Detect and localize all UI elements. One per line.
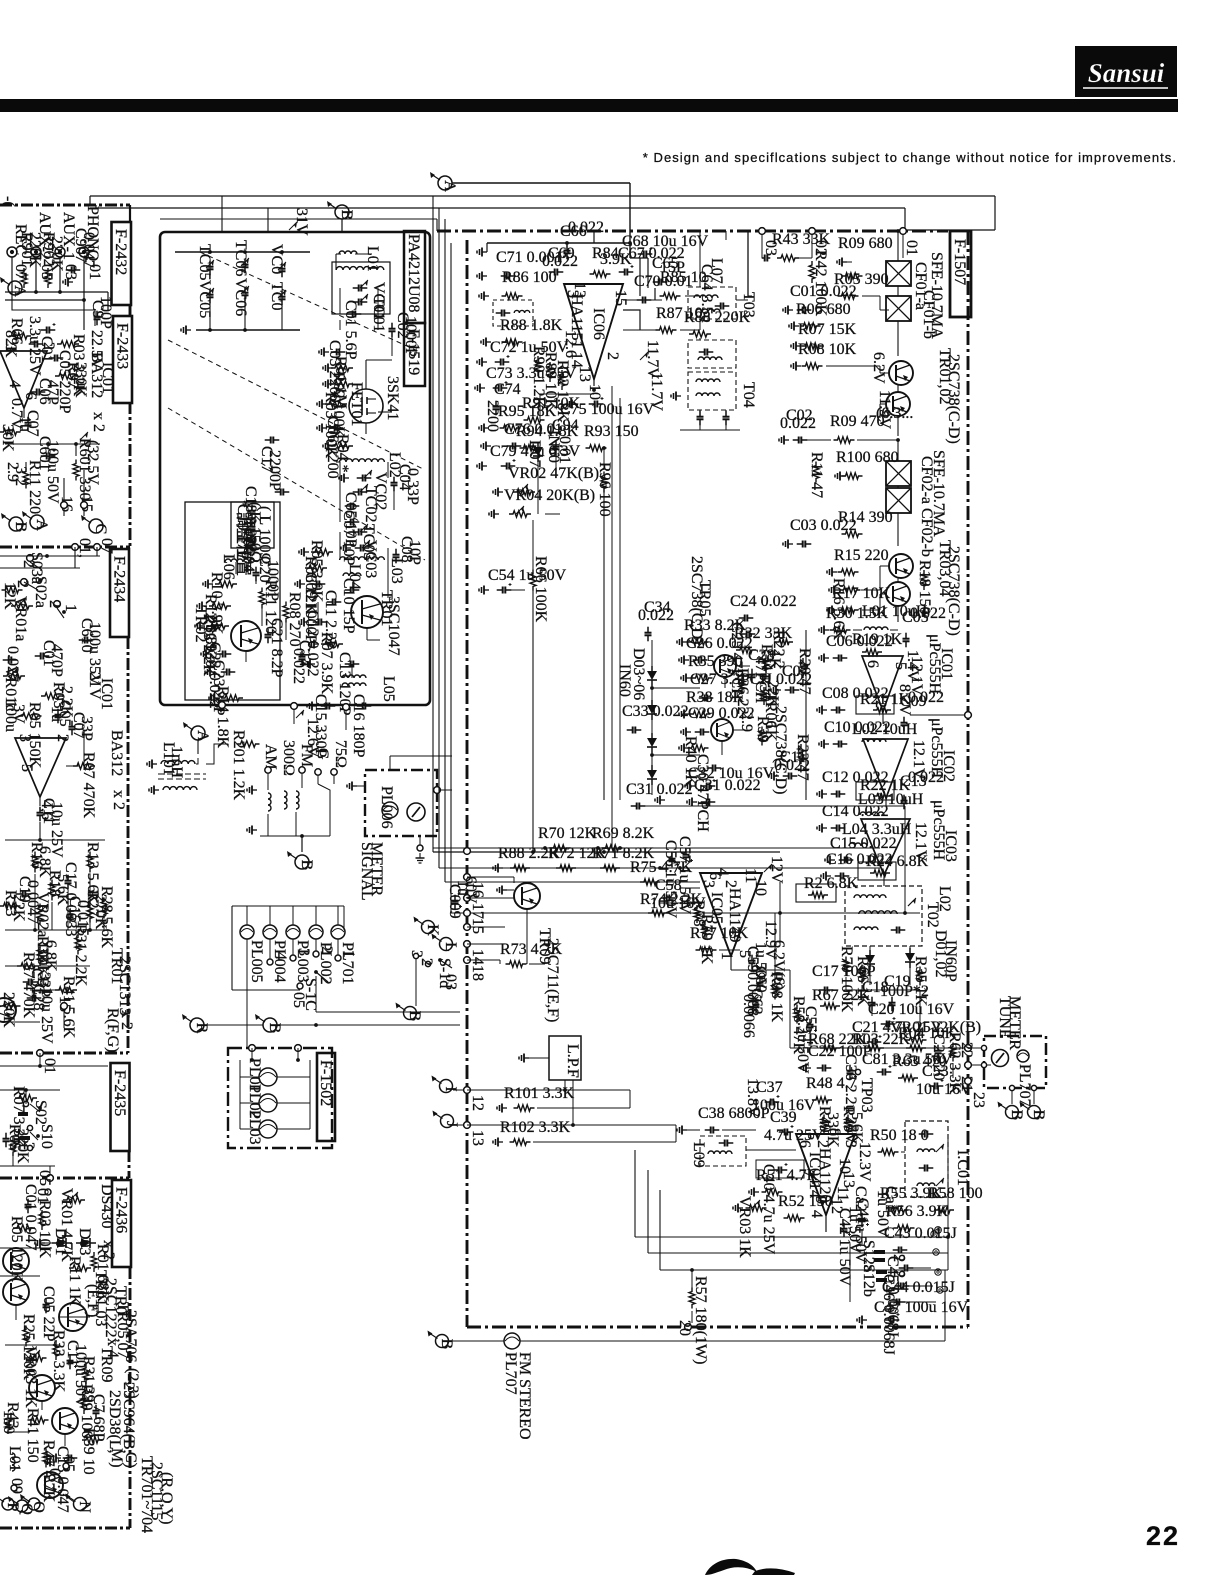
resistor R04m 10K (898, 1025, 957, 1051)
terminal 01 f2435 (37, 1050, 58, 1074)
wire nested loops top (594, 231, 655, 330)
resistor R06c 680 (789, 301, 851, 331)
inductor L101 1mH (160, 742, 197, 790)
resistor R70 12K (538, 825, 597, 851)
capacitor C22m 100P (801, 1043, 872, 1073)
svg-text:I.C01: I.C01 (954, 1150, 971, 1186)
ground bal1 (247, 786, 257, 795)
svg-text:10P: 10P (406, 540, 423, 565)
svg-text:R: R (193, 1023, 210, 1034)
svg-text:22: 22 (1146, 1521, 1180, 1551)
transformer T04a (688, 340, 736, 368)
svg-text:IN60: IN60 (616, 664, 633, 697)
op-amp IC01u uPC555H (862, 656, 903, 711)
svg-text:22K: 22K (10, 894, 27, 922)
resistor R08 270 (283, 592, 303, 647)
svg-text:14: 14 (469, 949, 486, 965)
capacitor C12u 0.022 (817, 769, 889, 799)
svg-text:A: A (33, 519, 50, 531)
ground vr1 (493, 488, 503, 497)
svg-text:1: 1 (340, 950, 357, 958)
wire r57 (690, 1268, 694, 1323)
wire bus y882 (445, 881, 700, 883)
svg-text:R43 33K: R43 33K (772, 231, 831, 248)
capacitor C31m 0.022 (626, 781, 693, 810)
capacitor C19m 100P (880, 973, 929, 1011)
svg-text:PL005: PL005 (248, 940, 265, 983)
capacitor C65 15P (652, 255, 685, 286)
svg-text:L: L (442, 942, 459, 952)
svg-text:17: 17 (469, 903, 486, 919)
wire fet (366, 360, 392, 434)
pin 16 (58, 496, 75, 512)
capacitor C32 10u16V (685, 765, 775, 791)
svg-text:R69 8.2K: R69 8.2K (592, 825, 655, 842)
antenna terminal AM (262, 744, 279, 773)
resistor R26 6.8K (796, 875, 859, 902)
svg-text:22: 22 (958, 1042, 975, 1058)
svg-text:15P: 15P (660, 259, 685, 276)
capacitor C13u (900, 769, 944, 809)
wire out12 (467, 1088, 630, 1108)
capacitor C62m (740, 988, 765, 1038)
resistor R88m 2.2K (493, 845, 561, 873)
ground g1 (319, 348, 329, 357)
capacitor Ca2 1u50V (852, 1186, 869, 1264)
board border left spine (128, 205, 130, 1528)
terminal border y1090 (464, 1087, 486, 1111)
svg-text:R09 470: R09 470 (830, 413, 885, 430)
label 32.5V (80, 432, 101, 485)
svg-text:FM STEREO: FM STEREO (516, 1352, 533, 1440)
svg-text:2: 2 (604, 352, 621, 360)
svg-text:C10 0.022: C10 0.022 (824, 719, 891, 736)
meter M1 (407, 803, 425, 821)
resistor R57 180 1W (689, 1276, 709, 1364)
inductor T02 p (854, 895, 886, 898)
label 300ohm (280, 740, 297, 776)
svg-text:2: 2 (318, 946, 335, 954)
svg-text:-(: -( (0, 196, 17, 207)
capacitor C68 10u16V (622, 233, 709, 258)
wire feed rail1 (90, 196, 995, 230)
balun coil 1 (284, 791, 299, 809)
screw terminal 2 (933, 1249, 939, 1255)
svg-text:07: 07 (98, 538, 115, 554)
capacitor C11f 100u50V (64, 1340, 89, 1408)
label box F-1507 (950, 231, 971, 317)
svg-text:2.9: 2.9 (738, 712, 755, 732)
capacitor C09u (900, 689, 944, 731)
resistor R62m 3.3K (946, 1032, 963, 1095)
wire tone net (5, 874, 108, 932)
svg-text:R2 6.8K: R2 6.8K (804, 875, 859, 892)
svg-text:N: N (76, 1501, 93, 1513)
page number 22 (1146, 1521, 1180, 1551)
capacitor C55 3.3u50V (794, 1006, 819, 1074)
pin label 01 (86, 264, 103, 280)
svg-text:R14 1.8K: R14 1.8K (214, 686, 231, 749)
capacitor C9 100P (89, 296, 114, 329)
svg-text:2: 2 (20, 560, 37, 568)
switch S0a mid (46, 600, 79, 618)
svg-text:2: 2 (46, 600, 63, 608)
svg-text:2: 2 (890, 1270, 907, 1278)
label box F-2434 (110, 549, 129, 637)
svg-text:C71 0.001: C71 0.001 (496, 249, 563, 266)
svg-text:R08 10K: R08 10K (798, 341, 857, 358)
capacitor C58m 10u16V (650, 877, 706, 912)
svg-text:J: J (443, 1121, 460, 1127)
capacitor C16u 0.022 (821, 851, 893, 881)
transistor TR02f (3, 1279, 29, 1305)
board box F-1502 (228, 1048, 332, 1148)
capacitor C06 47P (31, 378, 61, 405)
resistor R09c 470 (830, 413, 900, 443)
wire c31 link (644, 806, 907, 915)
resistor R39b 10 (80, 1428, 102, 1475)
svg-text:1: 1 (718, 952, 735, 960)
inductor L01b tank (336, 254, 384, 270)
transistor TR03c 2SC738 (889, 554, 913, 578)
terminal 03 top (759, 228, 779, 256)
Sansui logo (1075, 46, 1177, 97)
svg-text:12V: 12V (768, 856, 785, 884)
label SIGNAL METER (358, 842, 385, 901)
resistor R41f 150 (24, 1408, 49, 1463)
svg-text:R50 18 0: R50 18 0 (870, 1127, 929, 1144)
svg-text:100u 50V: 100u 50V (44, 440, 61, 504)
capacitor C19 17P (234, 504, 256, 560)
wire tc bottom (196, 300, 300, 332)
capacitor C53 10u16V (916, 1063, 972, 1098)
resistor R23u 47 (794, 734, 811, 781)
capacitor C05 10P (342, 492, 359, 548)
resistor R22m (770, 630, 793, 669)
svg-text:2: 2 (722, 880, 739, 888)
op-amp IC06 HA1151 (564, 284, 623, 379)
svg-text:R06 680: R06 680 (796, 301, 851, 318)
resistor R12 6.8K (202, 594, 231, 657)
wire v605 (605, 386, 612, 848)
capacitor C0.027 (3, 646, 21, 682)
svg-text:L07: L07 (708, 258, 725, 284)
svg-text:10u 25V: 10u 25V (38, 988, 55, 1044)
svg-text:C08 0.022: C08 0.022 (822, 685, 889, 702)
svg-text:3V: 3V (10, 704, 27, 724)
wire s1c out (232, 939, 316, 990)
svg-text:R88 1.8K: R88 1.8K (500, 317, 563, 334)
svg-text:PL03: PL03 (246, 1110, 263, 1145)
svg-text:S12b: S12b (860, 1264, 877, 1297)
resistor R33m 8.2K (677, 617, 747, 647)
wire out13 (467, 1123, 676, 1142)
resistor R63 470 (892, 1053, 947, 1081)
capacitor C19 0.0047 (16, 876, 41, 924)
resistor R08c 10K (791, 341, 857, 371)
svg-text:R66 100K: R66 100K (532, 556, 549, 623)
switch S-1d (418, 958, 459, 990)
svg-text:2: 2 (54, 734, 71, 742)
svg-text:2: 2 (40, 342, 57, 350)
resistor R03f 10K (36, 1200, 53, 1259)
resistor R33f 3.3K (50, 1330, 67, 1393)
ground f2436b (45, 1458, 55, 1467)
ground g5 (317, 424, 327, 433)
terminal 01p (72, 538, 115, 558)
svg-text:0.022: 0.022 (638, 607, 674, 624)
svg-text:B: B (298, 860, 315, 871)
svg-text:R100 680: R100 680 (836, 449, 899, 466)
terminal 2b (890, 1270, 907, 1278)
svg-text:HA1149: HA1149 (726, 888, 743, 943)
capacitor C81 3.3u50V (862, 1051, 953, 1076)
svg-text:B: B (1008, 1110, 1025, 1121)
capacitor C12 0.022 (304, 610, 327, 677)
wire top right loop (740, 231, 903, 258)
transistor FET01 3SK41 (348, 382, 383, 426)
capacitor C37 100u16V (752, 1079, 816, 1114)
svg-text:100P*2: 100P*2 (880, 983, 929, 1000)
wire harness v3 (444, 219, 446, 882)
signal meter box (365, 770, 437, 836)
terminal P (0, 1494, 21, 1512)
resistor R07b 3.9K (318, 632, 343, 695)
capacitor C27 3.3PCH (690, 671, 772, 702)
svg-text:R57 180(1W): R57 180(1W) (692, 1276, 709, 1364)
svg-text:2SA706: 2SA706 (122, 1310, 139, 1362)
resistor R03 2.2K (57, 334, 87, 397)
jack J3 AUX-2 (31, 247, 41, 257)
svg-text:0.047: 0.047 (80, 232, 97, 268)
variable resistor VR01a (11, 596, 33, 641)
capacitor C17 2200P (258, 437, 283, 492)
capacitor C01c 0.022 (783, 283, 857, 315)
resistor R90 1.2K (530, 346, 547, 409)
ground jack bus (63, 278, 73, 287)
svg-text:R58 100: R58 100 (928, 1185, 983, 1202)
svg-text:0.0066: 0.0066 (740, 994, 757, 1038)
terminal K (414, 917, 442, 937)
resistor R74 2.2K (640, 891, 703, 916)
resistor R16 5.6K (829, 578, 861, 641)
svg-text:330K: 330K (72, 362, 89, 398)
capacitor C08 10P (393, 536, 424, 565)
transistor TR01a (0, 998, 16, 1022)
terminal 05 f2436 (60, 1456, 77, 1472)
capacitor C08 0.022 (817, 685, 889, 715)
svg-text:R86 100: R86 100 (502, 269, 557, 286)
capacitor C01 470P (35, 640, 65, 677)
switch S10 (20, 1124, 55, 1151)
wire bus y1048 (790, 1045, 971, 1052)
inductor L04 (343, 564, 363, 590)
filter LPF box (549, 1036, 581, 1080)
label BA312 upper (88, 352, 116, 432)
svg-text:PA4212U08: PA4212U08 (405, 234, 422, 313)
resistor R71 8.2K (592, 845, 655, 871)
svg-text:CF02-a CF02-b: CF02-a CF02-b (918, 456, 935, 557)
resistor R86 100 (502, 269, 557, 299)
svg-text:C21 8.2P: C21 8.2P (268, 618, 285, 678)
wire upc rail (806, 630, 971, 886)
pin labels opamp2 (16, 734, 71, 820)
capacitor C28 10u25V (27, 984, 55, 1044)
resistor R28 5.6K (98, 886, 115, 949)
label SFE-10.7MA 1 (928, 252, 945, 339)
svg-text:31V: 31V (293, 208, 310, 236)
label 11.7V a (640, 340, 661, 379)
capacitor C06u 0.022 (819, 633, 893, 663)
pin label 07 (12, 264, 29, 280)
capacitor C07 1u (16, 410, 41, 437)
lamp PL01 (240, 1058, 310, 1093)
pin 15 f2434 (56, 996, 73, 1028)
ground g20 (209, 694, 219, 703)
svg-text:IC06: IC06 (590, 308, 607, 340)
resistor R68 22K (808, 1031, 867, 1051)
label 11.7V b (648, 372, 665, 411)
inductor T02 t (854, 927, 905, 934)
resistor R49b 5.6K (840, 1106, 865, 1144)
resistor R37 470K (17, 952, 39, 1019)
wire rail left hooks (90, 196, 96, 208)
inductor L03 (340, 557, 405, 584)
terminal Q (8, 1496, 35, 1515)
capacitor C15 0.015 (66, 896, 91, 936)
lamp PL004 (263, 906, 288, 983)
wire bottom taps (294, 710, 346, 730)
resistor R88b 220K (684, 309, 751, 337)
svg-text:B: B (406, 1011, 423, 1022)
resistor R05c 390 (834, 271, 889, 299)
wire tr09 net (527, 909, 545, 964)
diode D03b (647, 765, 657, 785)
svg-text:O: O (30, 1501, 47, 1513)
resistor R901 (18, 232, 43, 288)
ground f2436a (35, 1239, 52, 1248)
ground ha col3 (479, 292, 489, 301)
label EF (84, 1284, 101, 1317)
alignment dashed guide 1 (168, 340, 425, 470)
trimmer TC06 (240, 518, 257, 554)
resistor R35p 1K (912, 956, 929, 1007)
wire fb1 (635, 1150, 948, 1237)
svg-text:60V: 60V (462, 876, 479, 904)
capacitor C04 0.33P (391, 464, 422, 505)
wire pins down (64, 470, 84, 516)
ground sfe1 (837, 258, 852, 267)
screw terminal 1 (931, 1231, 937, 1237)
wire opamp2 net (5, 730, 105, 842)
resistor R95 18K (498, 403, 557, 431)
svg-text:3: 3 (295, 948, 312, 956)
wire pl707 (449, 1270, 945, 1341)
resistor R30 1.5K (819, 605, 889, 635)
wire ha1151 out (592, 296, 700, 392)
resistor R33 6.8K (34, 936, 59, 972)
svg-text:F-2432: F-2432 (112, 229, 129, 275)
screw terminal 3 (935, 1269, 941, 1275)
label D03-06 (630, 648, 647, 700)
label 3SC1047 (385, 596, 402, 656)
resistor R49 330K (816, 1106, 841, 1148)
label 13.8V (744, 1078, 761, 1118)
svg-text:BA312: BA312 (108, 730, 125, 776)
capacitor C76 0.01 (504, 421, 563, 450)
resistor R18 5.6K (46, 870, 71, 906)
svg-text:0.022: 0.022 (290, 648, 307, 684)
svg-text:R48 4.7: R48 4.7 (806, 1075, 857, 1092)
board divider F-2436 bottom (0, 1527, 130, 1530)
svg-text:2SC738(C-D): 2SC738(C-D) (945, 546, 962, 636)
inductor L02 (336, 452, 403, 478)
capacitor C69 0.022 (542, 245, 578, 276)
svg-text:C20 10u 16V: C20 10u 16V (868, 1001, 955, 1018)
capacitor C44 0.015J (882, 1279, 955, 1306)
svg-text:C31 0.022: C31 0.022 (694, 777, 761, 794)
terminal B4 (396, 1003, 424, 1022)
svg-text:03: 03 (62, 264, 79, 280)
capacitor C05 220P (49, 350, 73, 414)
resistor R05 150K (19, 702, 44, 769)
resistor R88 1.8K (500, 317, 563, 345)
capacitor C57 1u50V (676, 836, 693, 915)
ground g3 (323, 380, 333, 389)
svg-text:0.022: 0.022 (568, 219, 604, 236)
transistor TR01f (3, 1248, 29, 1274)
svg-text:2SC738(C-D): 2SC738(C-D) (945, 354, 962, 444)
board divider F-2432 top (0, 204, 130, 207)
trimmer TC03 (353, 524, 377, 560)
svg-text:C33 0.022: C33 0.022 (622, 703, 689, 720)
resistor R93 150 (584, 423, 639, 451)
resistor R11f 1K (66, 1256, 91, 1306)
svg-text:L.P.F: L.P.F (564, 1044, 581, 1078)
terminal 05 f2435 (36, 1170, 53, 1186)
label HA1151 (568, 294, 607, 349)
wire fb right (946, 1134, 950, 1270)
ground g11 (299, 618, 309, 627)
label HA1149 (708, 888, 743, 943)
svg-text:TC06: TC06 (232, 240, 249, 276)
resistor R94b 1.8K (516, 423, 579, 451)
svg-text:15: 15 (612, 290, 629, 306)
resistor R07 330K (55, 362, 89, 398)
svg-text:IC01: IC01 (98, 678, 115, 710)
resistor R07 470K (73, 752, 97, 819)
terminal border y927 (464, 924, 471, 931)
filter SFE1a (886, 261, 911, 286)
wire lower right (920, 1048, 953, 1078)
svg-text:L02: L02 (936, 886, 953, 912)
svg-text:C17 100P: C17 100P (812, 963, 876, 980)
ground g8 (341, 544, 351, 553)
label 2.9 d (738, 712, 755, 732)
capacitor C02 1000P (389, 312, 420, 357)
ground mid1 (652, 782, 665, 805)
pin ticks HA1149 (700, 868, 769, 960)
capacitor C22 0.022 (206, 642, 231, 709)
lamp PL03 (240, 1110, 310, 1145)
ground g15 (203, 580, 213, 589)
ground tr09 (497, 886, 514, 895)
board divider F-2434/F-2435 (0, 1052, 128, 1055)
svg-text:13: 13 (576, 366, 593, 382)
label REC (12, 224, 29, 255)
inductor L02u 10uH (852, 721, 918, 742)
label uPC555H 3 (930, 800, 959, 862)
